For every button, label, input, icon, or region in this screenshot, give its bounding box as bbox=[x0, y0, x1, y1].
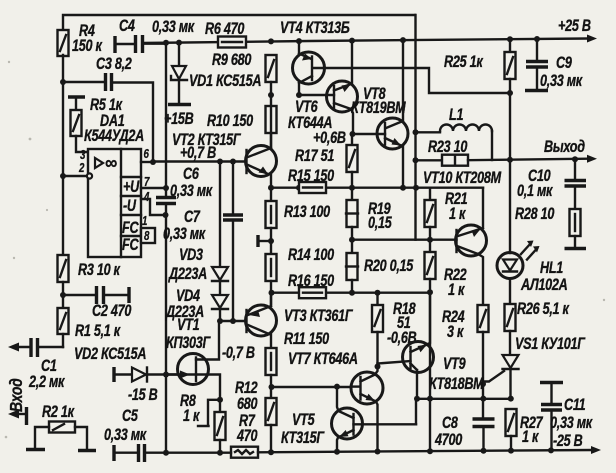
wire output row y398.6 bbox=[414, 396, 511, 425]
svg-text:R6 470: R6 470 bbox=[205, 21, 244, 39]
svg-text:VD2 КС515А: VD2 КС515А bbox=[74, 346, 146, 364]
svg-text:-0,6В: -0,6В bbox=[387, 330, 417, 348]
resistor R7 470 in rail bbox=[231, 413, 258, 458]
svg-text:8: 8 bbox=[144, 230, 150, 243]
resistor R9 680 bbox=[212, 52, 277, 106]
svg-text:Д223А: Д223А bbox=[167, 266, 207, 284]
svg-text:1 к: 1 к bbox=[522, 429, 539, 447]
transistor VT2 KT315G bbox=[172, 132, 277, 188]
capacitor C5 0,33mk bbox=[104, 408, 147, 462]
svg-text:FC: FC bbox=[122, 220, 139, 238]
svg-text:R10 150: R10 150 bbox=[207, 113, 253, 131]
capacitor C2 470 bbox=[63, 286, 131, 320]
svg-text:R14 100: R14 100 bbox=[288, 247, 334, 265]
resistor R13 100 bbox=[258, 188, 330, 254]
resistor R12 680 bbox=[235, 380, 277, 452]
svg-text:0,33 мк: 0,33 мк bbox=[170, 183, 213, 201]
led HL1 AL102A bbox=[497, 160, 567, 295]
wire top rail bbox=[63, 15, 415, 31]
svg-text:0,33 мк: 0,33 мк bbox=[540, 73, 583, 91]
svg-text:VT2 КТ315Г: VT2 КТ315Г bbox=[172, 132, 242, 150]
transistor VT4 KT313B bbox=[280, 20, 350, 95]
capacitor C10 0,1mk bbox=[517, 159, 586, 209]
wire output line bbox=[468, 139, 597, 163]
resistor R18 51 bbox=[372, 293, 417, 370]
svg-text:1 к: 1 к bbox=[183, 408, 200, 426]
svg-text:1 к: 1 к bbox=[448, 282, 465, 300]
svg-text:Выход: Выход bbox=[544, 139, 585, 157]
svg-text:КТ315Г: КТ315Г bbox=[281, 430, 325, 448]
svg-text:1 к: 1 к bbox=[449, 206, 466, 224]
svg-text:C3 8,2: C3 8,2 bbox=[96, 56, 132, 74]
svg-text:КТ819ВМ: КТ819ВМ bbox=[351, 100, 406, 118]
svg-text:-0,7 В: -0,7 В bbox=[222, 345, 255, 363]
svg-text:VT10 КТ208М: VT10 КТ208М bbox=[423, 170, 502, 188]
transistor VT8 KT819VM bbox=[351, 41, 408, 187]
svg-text:R20 0,15: R20 0,15 bbox=[364, 258, 414, 276]
svg-text:R25 1к: R25 1к bbox=[444, 54, 483, 72]
svg-text:Вход: Вход bbox=[6, 378, 26, 412]
zener VD1 KS515A bbox=[164, 43, 261, 128]
svg-text:C4: C4 bbox=[119, 18, 135, 36]
resistor R3 10k bbox=[58, 255, 121, 308]
resistor R11 150 bbox=[266, 331, 330, 398]
resistor R25 1k bbox=[444, 39, 516, 160]
resistor R16 150 bbox=[288, 273, 334, 299]
svg-text:R23 10: R23 10 bbox=[428, 139, 467, 157]
svg-text:R17 51: R17 51 bbox=[295, 148, 334, 166]
svg-text:C11: C11 bbox=[564, 397, 586, 415]
svg-text:VT9: VT9 bbox=[443, 356, 466, 374]
svg-text:4700: 4700 bbox=[434, 432, 462, 450]
svg-text:+U: +U bbox=[123, 179, 140, 197]
wire VT3 base bbox=[217, 318, 246, 324]
svg-text:КП303Г: КП303Г bbox=[166, 335, 211, 353]
svg-text:VT3 КТ361Г: VT3 КТ361Г bbox=[284, 308, 354, 326]
svg-text:2: 2 bbox=[78, 162, 85, 175]
capacitor C1 2,2mk input bbox=[8, 338, 65, 391]
svg-text:-25 В: -25 В bbox=[553, 433, 583, 451]
capacitor C6 0,33mk bbox=[156, 166, 213, 204]
svg-text:2,2 мк: 2,2 мк bbox=[28, 374, 65, 392]
resistor R24 3k bbox=[442, 305, 489, 419]
transistor VT5 KT315G bbox=[281, 387, 416, 452]
svg-text:VD1 КС515А: VD1 КС515А bbox=[189, 73, 261, 91]
wire x430 column to rail bbox=[427, 292, 433, 451]
svg-text:КТ818ВМ: КТ818ВМ bbox=[429, 376, 484, 394]
svg-text:R16 150: R16 150 bbox=[288, 273, 334, 291]
svg-text:R2 1к: R2 1к bbox=[42, 404, 75, 422]
resistor R8 1k bbox=[180, 393, 226, 452]
thyristor VS1 KU101G bbox=[483, 336, 586, 402]
svg-text:C8: C8 bbox=[442, 415, 459, 433]
capacitor C9 0,33mk bbox=[525, 39, 583, 91]
svg-text:∞: ∞ bbox=[105, 152, 117, 173]
wire VT6 collector to VT8 base y134 bbox=[313, 130, 385, 148]
resistor R4 150k bbox=[58, 23, 103, 56]
svg-text:R13 100: R13 100 bbox=[284, 204, 330, 222]
wire left column x63 bbox=[60, 55, 66, 255]
svg-text:0,33 мк: 0,33 мк bbox=[104, 427, 147, 445]
svg-text:+25 В: +25 В bbox=[558, 18, 591, 36]
svg-text:0,33 мк: 0,33 мк bbox=[152, 19, 195, 37]
svg-text:R15 150: R15 150 bbox=[288, 168, 334, 186]
wire emitter line y187.5 bbox=[268, 185, 483, 191]
diode VD2 KS515A bbox=[74, 346, 178, 405]
diode VD4 D223A bbox=[164, 288, 228, 322]
wire +25V rail bbox=[143, 35, 597, 44]
transistor VT7 KT646A bbox=[288, 351, 383, 452]
resistor R27 1k bbox=[506, 409, 544, 451]
transistor VT10 KT208M bbox=[423, 170, 502, 305]
resistor R28 10 bbox=[515, 206, 586, 249]
diode VD3 D223A bbox=[167, 162, 228, 296]
svg-text:0,15: 0,15 bbox=[368, 215, 393, 233]
svg-text:470: 470 bbox=[236, 428, 257, 446]
resistor R2 1k with grounds bbox=[26, 404, 96, 451]
svg-text:К544УД2А: К544УД2А bbox=[84, 128, 144, 146]
svg-text:+0,6В: +0,6В bbox=[313, 130, 346, 148]
label Vhod (input) bbox=[6, 378, 26, 425]
transistor VT1 KP303G fet bbox=[166, 317, 255, 426]
svg-text:R3 10 к: R3 10 к bbox=[78, 262, 121, 280]
svg-text:150 к: 150 к bbox=[72, 38, 102, 56]
svg-text:3: 3 bbox=[80, 149, 86, 162]
resistor R15 150 bbox=[288, 168, 334, 193]
svg-text:3 к: 3 к bbox=[447, 324, 464, 342]
resistor R14 100 bbox=[266, 247, 335, 304]
svg-text:0,1 мк: 0,1 мк bbox=[517, 183, 553, 201]
svg-text:FC: FC bbox=[122, 237, 139, 255]
resistor R10 150 bbox=[207, 106, 277, 148]
resistor R20 0,15 bbox=[346, 253, 414, 293]
svg-text:VT4 КТ313Б: VT4 КТ313Б bbox=[280, 20, 350, 38]
resistor R1 5,1k bbox=[58, 308, 121, 347]
svg-text:C7: C7 bbox=[184, 209, 201, 227]
svg-text:R1 5,1 к: R1 5,1 к bbox=[75, 323, 121, 341]
svg-text:HL1: HL1 bbox=[540, 260, 563, 278]
wire bottom rail bbox=[146, 446, 601, 456]
wire y239.7 row bbox=[352, 15, 430, 240]
node dots on +25V rail bbox=[163, 36, 540, 46]
wire +15 feed column x166 bbox=[163, 43, 170, 452]
svg-text:-15 В: -15 В bbox=[128, 387, 158, 405]
svg-text:R28 10: R28 10 bbox=[515, 206, 554, 224]
svg-text:VS1 КУ101Г: VS1 КУ101Г bbox=[515, 336, 586, 354]
svg-text:R26 5,1 к: R26 5,1 к bbox=[517, 301, 570, 319]
capacitor C7 0,33mk bbox=[163, 162, 243, 321]
op-amp DA1 K544UD2A bbox=[63, 113, 166, 257]
resistor R22 1k bbox=[425, 252, 467, 299]
svg-text:6: 6 bbox=[144, 148, 150, 161]
svg-text:C5: C5 bbox=[122, 408, 139, 426]
svg-text:+15В: +15В bbox=[164, 111, 193, 129]
svg-text:0,33 мк: 0,33 мк bbox=[163, 226, 206, 244]
svg-text:-U: -U bbox=[123, 198, 136, 216]
resistor R23 10 bbox=[416, 139, 469, 166]
speckles bbox=[5, 61, 606, 439]
resistor R6 470 bbox=[205, 21, 246, 48]
transistor VT9 KT818VM bbox=[378, 292, 485, 398]
svg-text:АЛ102А: АЛ102А bbox=[520, 277, 567, 295]
resistor R19 0,15 bbox=[346, 188, 393, 253]
resistor R21 1k bbox=[425, 188, 468, 252]
svg-text:L1: L1 bbox=[449, 107, 463, 125]
svg-text:1: 1 bbox=[142, 215, 147, 228]
inductor L1 bbox=[416, 107, 493, 160]
capacitor C8 4700 bbox=[434, 415, 494, 451]
wire VT4 base bias (Z to R25 bottom) bbox=[314, 68, 510, 93]
wire y292.7 row bbox=[271, 289, 433, 295]
svg-text:VD3: VD3 bbox=[179, 247, 203, 265]
svg-text:R9 680: R9 680 bbox=[212, 52, 251, 70]
resistor R26 5,1k bbox=[505, 279, 570, 356]
resistor R5 1k bbox=[68, 97, 123, 152]
capacitor C4 0,33mk bbox=[115, 18, 195, 53]
wire y386.5 VT7 base feed bbox=[271, 384, 351, 390]
resistor R17 51 bbox=[295, 134, 358, 188]
svg-text:R11 150: R11 150 bbox=[284, 331, 329, 349]
svg-text:C6: C6 bbox=[183, 166, 200, 184]
capacitor C11 0,33mk bbox=[540, 383, 593, 451]
svg-text:C9: C9 bbox=[556, 55, 573, 73]
svg-text:VT1: VT1 bbox=[177, 317, 200, 335]
svg-text:C2 470: C2 470 bbox=[92, 303, 131, 321]
label +25V bbox=[558, 18, 591, 36]
transistor VT6 KT644A bbox=[288, 41, 358, 134]
svg-text:0,33 мк: 0,33 мк bbox=[550, 415, 593, 433]
wire op-amp output to VT2 base bbox=[153, 145, 246, 165]
capacitor C3 8,2 bbox=[63, 56, 153, 160]
svg-text:VT7 КТ646А: VT7 КТ646А bbox=[288, 351, 358, 369]
svg-text:680: 680 bbox=[237, 396, 257, 414]
transistor VT3 KT361G bbox=[246, 293, 354, 348]
svg-text:VT5: VT5 bbox=[292, 412, 315, 430]
